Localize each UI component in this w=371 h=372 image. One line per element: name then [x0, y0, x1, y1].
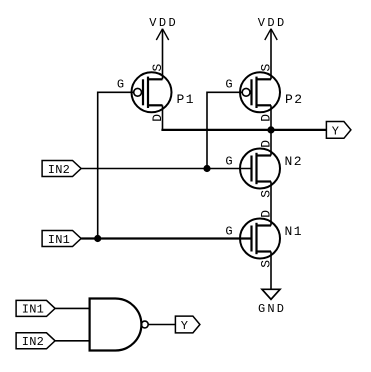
wire VDD2 to P2 source — [270, 29, 272, 80]
power VDD #1 — [156, 29, 168, 40]
wire N2 source to N1 drain — [270, 182, 272, 226]
svg-text:Y: Y — [332, 124, 339, 138]
wire output net Y horizontal — [161, 129, 326, 131]
svg-text:IN1: IN1 — [48, 233, 70, 247]
hierarchical label IN1 (gate view) — [16, 300, 55, 316]
svg-text:G: G — [117, 78, 124, 92]
transistor P1 (PMOS) — [132, 72, 172, 112]
svg-text:P1: P1 — [177, 92, 194, 107]
wire IN2 to NAND input B — [55, 340, 90, 342]
svg-text:N2: N2 — [285, 154, 302, 169]
svg-text:G: G — [225, 155, 232, 169]
junction IN1 net at P1 gate branch — [94, 235, 101, 242]
wire P2 gate stub — [207, 92, 242, 168]
svg-text:G: G — [225, 78, 232, 92]
junction at P2 drain / output — [267, 126, 274, 133]
hierarchical label IN2 (gate view) — [16, 333, 55, 349]
junction IN2 net at P2 gate branch — [203, 165, 210, 172]
power VDD #2 — [265, 29, 277, 40]
wire IN1 to NAND input A — [55, 307, 90, 309]
hierarchical label Y (schematic) — [326, 122, 351, 139]
gate U1 NAND body — [90, 299, 142, 351]
wire IN1 net horizontal — [81, 237, 251, 239]
svg-text:IN2: IN2 — [48, 163, 70, 177]
hierarchical label Y (gate view) — [175, 316, 200, 333]
wire P1 drain down to output net — [162, 105, 164, 131]
gate U1 output bubble — [141, 321, 148, 328]
svg-text:G: G — [225, 225, 232, 239]
wire NAND output to Y — [148, 324, 175, 326]
transistor P2 (PMOS) — [240, 72, 280, 112]
svg-text:IN1: IN1 — [22, 303, 44, 317]
hierarchical label IN1 (schematic) — [42, 231, 81, 247]
transistor N2 (NMOS) — [240, 149, 280, 189]
wire P1 gate stub — [98, 92, 134, 238]
ground GND symbol — [262, 289, 280, 299]
svg-text:GND: GND — [258, 302, 284, 316]
svg-text:IN2: IN2 — [22, 335, 44, 349]
svg-text:VDD: VDD — [258, 16, 285, 30]
hierarchical label IN2 (schematic) — [42, 161, 81, 177]
wire N1 source to GND — [270, 252, 272, 290]
wire P2 drain down through junction to N2 drain — [270, 105, 272, 155]
svg-text:Y: Y — [181, 319, 188, 333]
svg-text:VDD: VDD — [149, 16, 176, 30]
svg-text:P2: P2 — [285, 92, 302, 107]
svg-text:S: S — [259, 64, 274, 72]
transistor N1 (NMOS) — [240, 219, 280, 259]
wire VDD1 to P1 source — [162, 29, 164, 80]
svg-text:S: S — [150, 64, 165, 72]
svg-text:N1: N1 — [285, 224, 302, 239]
wire IN2 net horizontal — [81, 168, 251, 170]
